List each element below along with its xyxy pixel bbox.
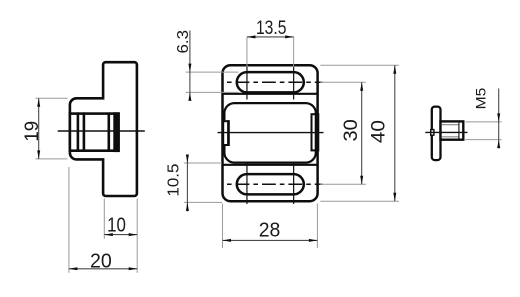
svg-text:10.5: 10.5	[166, 163, 183, 196]
dimension 10/20 shared extension line right	[136, 199, 138, 273]
dimension 20 arrow right	[129, 267, 138, 270]
boss inner step line 1	[77, 112, 80, 151]
svg-text:13.5: 13.5	[256, 18, 287, 39]
dimension 19 extension line bottom	[36, 158, 68, 160]
dimension 10 extension line left	[103, 199, 105, 239]
dimension 6.3 extension line bottom	[186, 91, 239, 93]
svg-text:28: 28	[259, 220, 281, 242]
screw head outline	[432, 107, 441, 161]
dimension 13.5 arrow right	[285, 35, 294, 38]
front plate outline	[223, 65, 318, 201]
dimension 10.5 line	[186, 155, 188, 211]
dimension 20 line	[69, 268, 137, 270]
dimension 13.5 extension line left	[246, 37, 248, 67]
dimension 10 line	[104, 234, 137, 236]
bottom slot dash-dot centerline	[227, 183, 322, 185]
front view horizontal centerline	[218, 132, 324, 134]
dimension 13.5 line	[247, 36, 294, 38]
dimension 40 arrow down	[393, 193, 396, 202]
dimension 30 extension line top	[320, 81, 366, 83]
dimension 30 extension line bottom	[320, 183, 366, 185]
thread end line	[458, 123, 460, 139]
left groove notch	[223, 121, 229, 145]
collar top edge line	[223, 93, 318, 95]
dimension 28 arrow right	[309, 239, 318, 242]
svg-text:6.3: 6.3	[175, 30, 192, 54]
dimension 30 arrow down	[360, 176, 363, 185]
screw head center notch	[431, 130, 434, 136]
dimension 30 arrow up	[360, 82, 363, 91]
bottom slot	[237, 174, 304, 194]
side view body outline	[70, 62, 137, 196]
dimension 19 line	[38, 98, 40, 159]
dimension 28 extension line left	[222, 204, 224, 249]
left groove notch thick edge	[227, 120, 230, 146]
dimension 10.5 extension line bottom	[184, 201, 222, 203]
dimension 6.3 arrow up	[188, 92, 191, 101]
dimension 13.5 arrow left	[247, 35, 256, 38]
dimension 10.5 extension line top	[184, 162, 222, 164]
dimension 28 extension line right	[316, 204, 318, 249]
dimension 20 arrow left	[69, 267, 78, 270]
dimension 6.3 arrow down	[188, 64, 191, 73]
dimension 40 extension line top	[320, 64, 399, 66]
dimension 19 arrow up	[37, 98, 40, 107]
dimension M5 extension line bottom	[465, 139, 501, 141]
dimension 20 extension line left	[68, 167, 70, 273]
boss end cap solid	[113, 112, 119, 152]
bottom slot right arc vertical tick	[293, 164, 295, 205]
svg-text:M5: M5	[472, 87, 488, 109]
dimension 10 arrow left	[104, 233, 113, 236]
collar front band	[224, 103, 315, 163]
screw centerline	[425, 131, 467, 133]
screw shank outline	[441, 121, 464, 139]
top slot dash-dot centerline	[227, 81, 322, 83]
dimension M5 extension line top	[465, 121, 501, 123]
dimension 10.5 arrow up	[186, 202, 189, 211]
svg-text:30: 30	[341, 119, 362, 141]
dimension 19 arrow down	[37, 150, 40, 159]
dimension 40 arrow up	[393, 65, 396, 74]
thread root line top	[442, 124, 460, 126]
boss inner step line 3	[108, 112, 111, 151]
dimension 13.5 extension line right	[293, 37, 295, 67]
dimension 28 arrow left	[223, 239, 232, 242]
top slot left arc vertical tick	[246, 67, 248, 100]
right groove notch	[312, 114, 318, 150]
dimension M5 arrow down	[497, 113, 500, 122]
boss (magnet housing) side outline	[70, 114, 119, 151]
thread root line bottom	[442, 136, 460, 138]
svg-text:19: 19	[22, 121, 43, 142]
dimension 30 line	[361, 82, 363, 184]
dimension M5 arrow up	[497, 140, 500, 149]
dimension 28 line	[223, 239, 318, 241]
svg-text:20: 20	[90, 250, 112, 272]
top slot right arc vertical tick	[293, 67, 295, 100]
dimension 6.3 line	[189, 31, 191, 101]
dimension 6.3 extension line top	[186, 71, 239, 73]
dimension 40 extension line bottom	[320, 200, 399, 202]
right groove notch solid edge	[315, 113, 320, 151]
dimension 40 line	[394, 65, 396, 201]
dimension 10.5 arrow down	[186, 155, 189, 164]
top slot	[237, 72, 304, 92]
boss inner step line 2	[83, 112, 86, 151]
collar bottom edge line	[223, 164, 318, 166]
svg-text:10: 10	[107, 215, 126, 237]
dimension 10 arrow right	[129, 233, 138, 236]
bottom slot left arc vertical tick	[246, 164, 248, 205]
dimension M5 line	[498, 89, 500, 149]
svg-text:40: 40	[369, 120, 390, 143]
dimension 19 extension line top	[36, 97, 68, 99]
side view horizontal centerline	[58, 130, 145, 132]
